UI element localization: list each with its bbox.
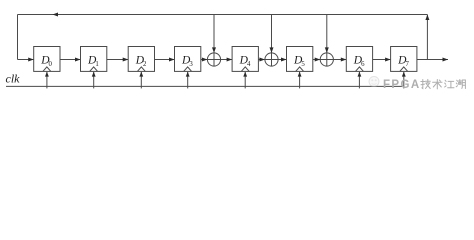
svg-text:1: 1 xyxy=(95,61,98,68)
svg-text:2: 2 xyxy=(143,61,147,68)
svg-text:6: 6 xyxy=(361,61,365,68)
svg-text:FPGA: FPGA xyxy=(383,79,421,91)
svg-text:7: 7 xyxy=(405,61,409,68)
svg-text:0: 0 xyxy=(49,61,53,68)
svg-text:3: 3 xyxy=(189,61,193,68)
svg-text:4: 4 xyxy=(247,61,251,68)
svg-text:clk: clk xyxy=(6,72,21,86)
svg-text:5: 5 xyxy=(301,61,305,68)
